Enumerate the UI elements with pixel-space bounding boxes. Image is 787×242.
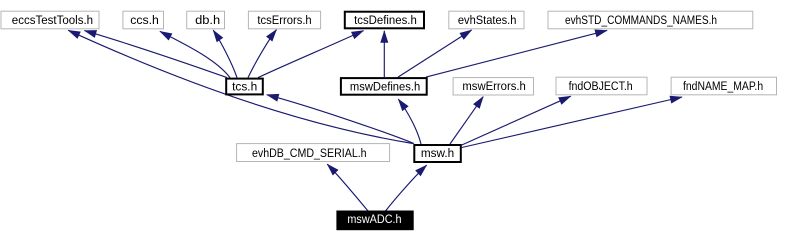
svg-text:mswADC.h: mswADC.h: [347, 212, 401, 226]
wire mswDefines.h to evhSTD_COMMANDS_NAMES.h: [426, 30, 607, 77]
wire mswDefines.h to evhStates.h: [398, 30, 472, 77]
node evhSTD_COMMANDS_NAMES.h: [548, 11, 753, 29]
node ccs.h: [123, 11, 164, 29]
wire tcs.h to db.h: [213, 30, 237, 77]
wire tcs.h to ccs.h: [160, 31, 230, 77]
wire msw.h to mswErrors.h: [450, 97, 483, 144]
svg-text:mswErrors.h: mswErrors.h: [462, 79, 525, 93]
node mswErrors.h: [453, 78, 533, 95]
svg-text:ccs.h: ccs.h: [130, 13, 159, 27]
node evhDB_CMD_SERIAL.h: [237, 144, 390, 162]
node mswADC.h (current file): [337, 211, 413, 230]
wire tcs.h to tcsErrors.h: [248, 30, 277, 78]
wire tcs.h to eccsTestTools.h: [85, 31, 228, 78]
svg-text:tcs.h: tcs.h: [232, 79, 257, 93]
node db.h: [187, 11, 225, 29]
wire mswADC.h to evhDB_CMD_SERIAL.h: [327, 164, 368, 211]
node tcsErrors.h: [248, 11, 320, 29]
node eccsTestTools.h: [1, 11, 99, 29]
svg-text:mswDefines.h: mswDefines.h: [350, 79, 420, 93]
wire mswDefines.h to tcsDefines.h: [383, 31, 385, 77]
svg-text:evhDB_CMD_SERIAL.h: evhDB_CMD_SERIAL.h: [252, 146, 367, 160]
svg-text:eccsTestTools.h: eccsTestTools.h: [12, 13, 93, 27]
node fndOBJECT.h: [556, 77, 647, 95]
wire msw.h to fndOBJECT.h: [462, 96, 571, 145]
svg-text:tcsDefines.h: tcsDefines.h: [354, 13, 417, 27]
node tcs.h: [226, 79, 263, 95]
svg-text:fndOBJECT.h: fndOBJECT.h: [569, 79, 633, 93]
wire msw.h to mswDefines.h: [398, 99, 421, 144]
wire msw.h to eccsTestTools.h: [68, 30, 413, 143]
wire tcs.h to tcsDefines.h: [258, 31, 364, 78]
wire msw.h to tcs.h: [267, 95, 414, 144]
node mswDefines.h: [341, 78, 427, 95]
svg-text:evhSTD_COMMANDS_NAMES.h: evhSTD_COMMANDS_NAMES.h: [565, 13, 717, 27]
wire msw.h to fndNAME_MAP.h: [462, 97, 682, 148]
node msw.h: [414, 145, 461, 162]
svg-text:db.h: db.h: [195, 13, 220, 27]
svg-text:msw.h: msw.h: [421, 146, 454, 160]
node tcsDefines.h: [345, 12, 424, 29]
svg-text:tcsErrors.h: tcsErrors.h: [257, 13, 311, 27]
node evhStates.h: [449, 11, 524, 29]
svg-text:evhStates.h: evhStates.h: [458, 13, 517, 27]
node fndNAME_MAP.h: [671, 77, 776, 95]
svg-text:fndNAME_MAP.h: fndNAME_MAP.h: [683, 79, 763, 93]
wire mswADC.h to msw.h: [386, 165, 427, 211]
